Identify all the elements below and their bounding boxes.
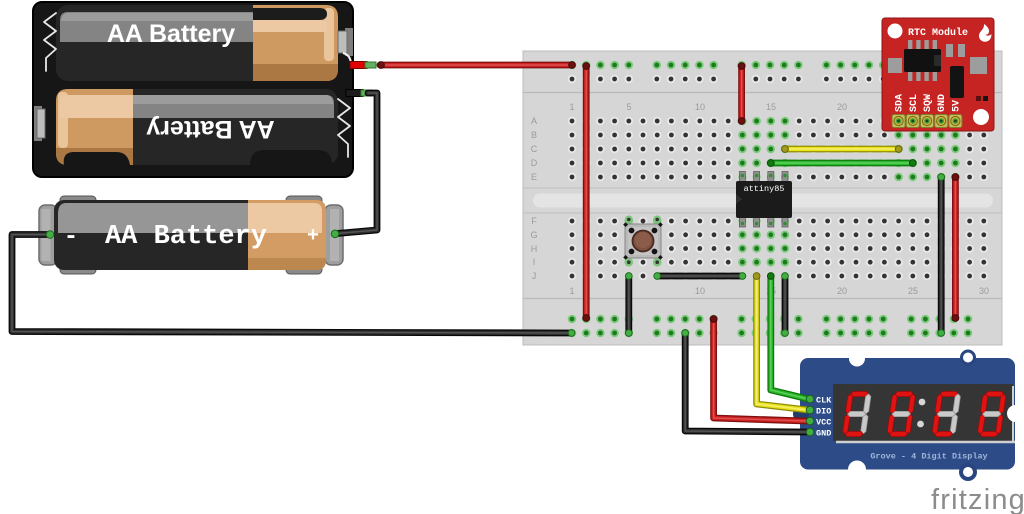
svg-text:AA Battery: AA Battery [105,222,267,252]
svg-text:C: C [531,144,538,154]
svg-text:1: 1 [569,102,574,112]
display notch right [1007,405,1024,422]
svg-text:AA Battery: AA Battery [146,115,274,143]
center channel [523,187,1002,189]
svg-text:5: 5 [626,102,631,112]
RTC module board [882,18,994,131]
display notch bottom [848,461,866,479]
RTC crystal [950,66,964,98]
node: single battery terminals [46,231,54,239]
display pins CLK DIO VCC GND [806,395,832,438]
holder black lead (-) [346,90,372,97]
breadboard row letters [530,116,537,281]
display mounting tab top-right [960,350,976,366]
RTC pin labels [895,94,963,112]
wire green: col15 row J to display CLK [771,276,808,399]
wire black: button col5 row J to bottom rail [625,276,632,333]
wire red: top rail to bottom rail (column riser) [583,66,590,318]
wire black: holder minus to single battery plus [337,93,377,234]
svg-text:30: 30 [979,286,989,296]
svg-text:H: H [531,244,538,254]
svg-text:D: D [531,158,538,168]
svg-text:J: J [532,271,537,281]
wire red: holder plus to breadboard top rail [380,62,572,69]
svg-text:-: - [64,224,78,251]
wire yellow: col14 row J to display DIO [757,276,808,410]
breadboard holes [568,61,988,338]
wire black: row J col7 to col13 (button to attiny) [657,273,742,280]
svg-text:10: 10 [695,286,705,296]
svg-text:15: 15 [766,102,776,112]
holder spring top-left [44,13,56,71]
svg-text:AA Battery: AA Battery [107,20,235,48]
battery holder case [33,2,353,177]
RTC pins SDA SCL SQW GND 5V [892,115,962,128]
holder plate top-right [338,28,353,65]
svg-text:B: B [531,130,537,140]
breadboard [523,51,1002,345]
battery AA top (in holder) [56,5,338,81]
RTC IC U2 [904,40,941,81]
holder spring bottom-right [338,99,350,157]
display digit 1 [842,391,872,436]
battery AA single [39,196,343,274]
wire black: bottom rail to display GND [685,333,806,432]
svg-text:GND: GND [937,94,948,112]
svg-text:CLK: CLK [816,396,832,406]
svg-text:GND: GND [816,429,831,439]
svg-text:SDA: SDA [895,94,906,112]
svg-text:fritzing: fritzing [931,484,1024,514]
display colon [919,399,926,406]
svg-text:10: 10 [695,102,705,112]
wire black: single battery minus to breadboard bottom rail [12,235,572,334]
wire black: RTC GND col27 row E to bottom rail [938,177,945,333]
svg-text:+: + [307,225,319,248]
battery AA bottom (in holder, flipped) [56,89,338,165]
sparkfun flame logo [979,24,991,42]
svg-text:20: 20 [837,102,847,112]
svg-text:5V: 5V [951,100,962,112]
display window [833,384,1013,441]
svg-text:Grove - 4 Digit Display: Grove - 4 Digit Display [870,452,987,462]
wire green: row D col15 to SCL col25 [771,160,913,167]
wire yellow: row C col16 to SDA col24 [785,146,899,153]
wire red: bottom rail plus to display VCC [714,319,806,421]
svg-text:E: E [531,172,537,182]
svg-text:VCC: VCC [816,418,831,428]
svg-text:attiny85: attiny85 [744,184,785,194]
svg-text:25: 25 [908,286,918,296]
holder plate bottom-left [34,106,45,141]
pushbutton S1 [623,216,663,267]
IC attiny85 [736,172,792,228]
wire black: col16 row J to bottom rail (attiny gnd) [782,276,789,333]
wire red: RTC 5V col28 row E to bottom rail plus [952,177,959,318]
display digit 2 [886,391,916,436]
wire red: top rail to row A col13 (attiny power) [738,66,745,121]
display hole left [793,406,809,422]
svg-text:1: 1 [569,286,574,296]
svg-text:F: F [531,216,537,226]
svg-text:RTC Module: RTC Module [908,27,968,39]
svg-text:DIO: DIO [816,407,831,417]
svg-text:SQW: SQW [923,94,934,112]
breadboard column numbers [569,102,989,296]
display mounting tab bottom-right [959,463,977,481]
svg-text:G: G [530,230,537,240]
display digit 3 [931,391,961,436]
display digit 4 [977,391,1007,436]
RTC passive pads [888,58,902,73]
Grove 4-digit display board [793,350,1024,482]
svg-text:A: A [531,116,537,126]
svg-text:20: 20 [837,286,847,296]
svg-text:SCL: SCL [909,94,920,112]
holder red lead (+) [350,62,376,69]
svg-text:I: I [533,257,536,267]
display notch top [849,351,865,367]
